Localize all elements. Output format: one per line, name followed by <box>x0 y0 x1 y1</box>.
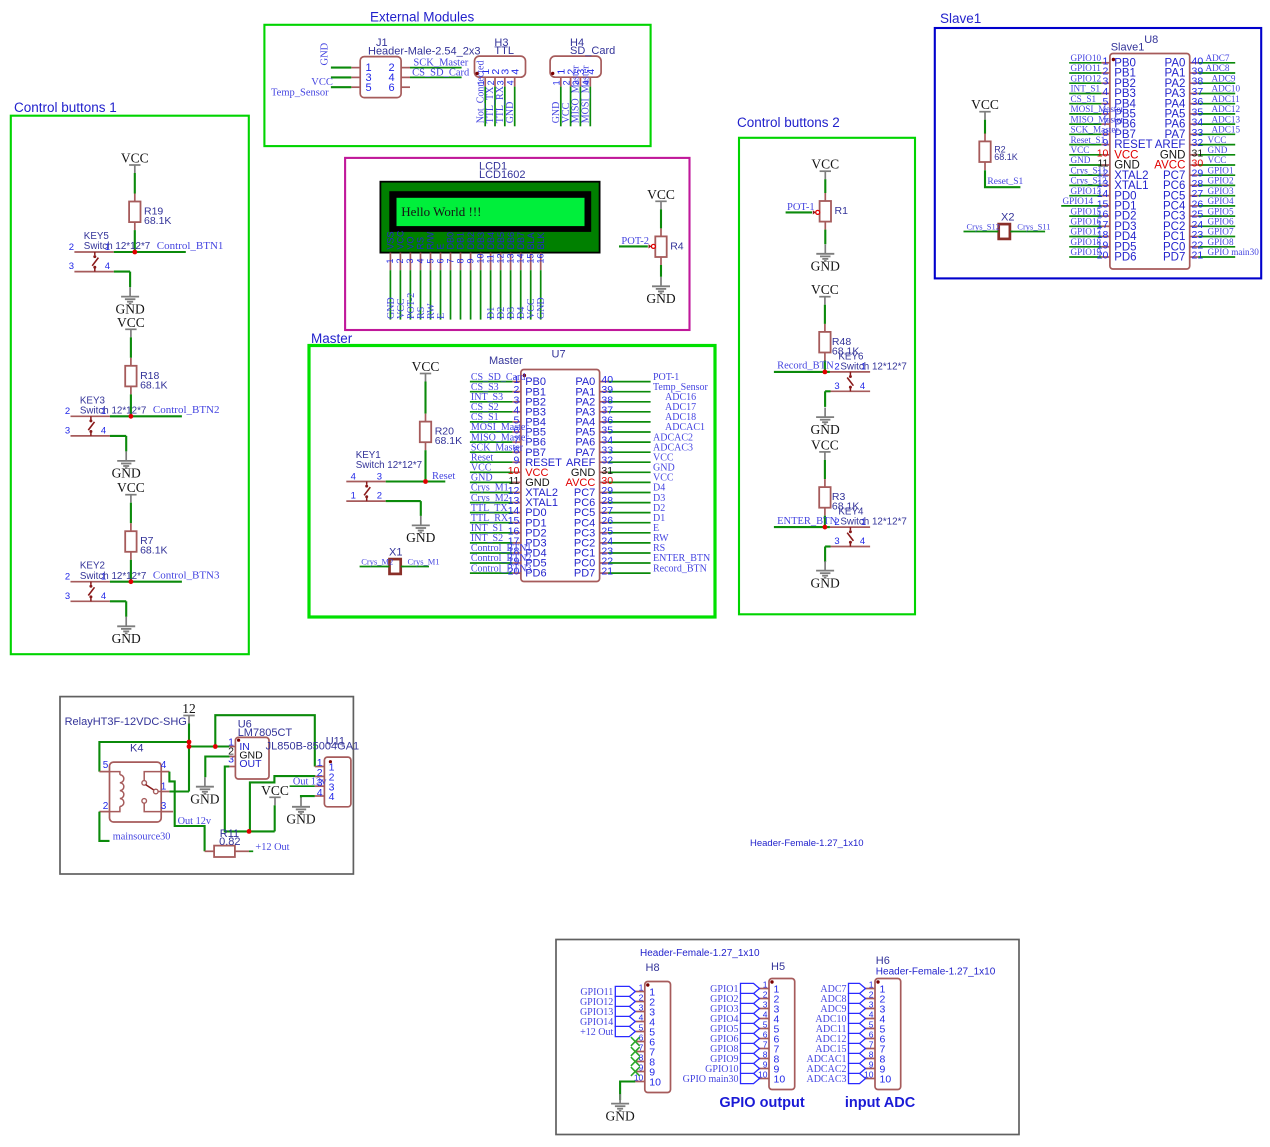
U8 pin 29 (PC7) net GPIO1 <box>1163 165 1235 181</box>
wire R7 to node <box>130 560 132 582</box>
svg-text:mainsource30: mainsource30 <box>113 832 171 843</box>
svg-text:Crys_S12: Crys_S12 <box>967 221 1001 231</box>
U7 pin 22 (PC0) net ENTER_BTN <box>574 553 710 569</box>
frame Control buttons 1 <box>11 116 249 655</box>
U7 pin 10 (VCC) net VCC <box>470 463 549 479</box>
U8 pin 31 (GND) net GND <box>1160 145 1235 161</box>
svg-text:DB1: DB1 <box>456 232 466 250</box>
svg-text:ADCAC3: ADCAC3 <box>806 1074 846 1085</box>
ground below R1 <box>811 244 840 273</box>
net flag ADC7 on H6 pin 1 <box>820 983 865 995</box>
svg-text:4: 4 <box>763 1009 768 1019</box>
U8 pin 1 (PB0) net GPIO10 <box>1069 53 1136 69</box>
svg-text:13: 13 <box>505 254 515 264</box>
resistor R7 68.1K <box>125 523 167 560</box>
svg-text:Out 12v: Out 12v <box>293 776 327 787</box>
U7 pin 11 (GND) net GND <box>470 473 550 489</box>
U8 pin 9 (RESET) net Reset_S1 <box>1069 135 1152 151</box>
U8 pin 15 (PD1) net GPIO14 <box>1061 196 1136 212</box>
wire X2 left net Crys_S12 <box>964 221 1001 231</box>
svg-text:10: 10 <box>880 1074 892 1086</box>
svg-text:5: 5 <box>103 760 109 771</box>
U7 pin 23 (PC1) net RS <box>574 543 665 559</box>
svg-text:ADC10: ADC10 <box>1212 84 1241 94</box>
wire R4 to GND <box>660 265 662 277</box>
U8 pin 20 (PD6) net GPIO19 <box>1069 247 1136 263</box>
power VCC for R48 <box>811 282 839 305</box>
power 12 supply symbol <box>182 701 196 724</box>
wire K4 pin4 to 12 rail <box>169 772 204 852</box>
svg-text:ADC13: ADC13 <box>1212 114 1241 124</box>
U8 pin 11 (GND) net GND <box>1069 155 1140 171</box>
resistor R11 0.82 (horizontal) <box>205 828 249 857</box>
U8 pin 13 (XTAL1) net Crys_S12 <box>1069 176 1148 192</box>
wire R1 to GND <box>824 230 826 245</box>
junction node ENTER_BTN <box>823 525 828 530</box>
svg-text:E: E <box>436 313 447 319</box>
svg-text:U11: U11 <box>326 736 345 748</box>
resistor R2 68.1K <box>979 133 1017 170</box>
svg-text:Header-Female-1.27_1x10: Header-Female-1.27_1x10 <box>750 838 864 849</box>
wire R18 to node <box>130 394 132 416</box>
wire K4 pin2 net mainsource30 <box>99 812 170 843</box>
junction 12 rail upper <box>187 740 192 745</box>
svg-text:GPIO6: GPIO6 <box>1208 217 1234 227</box>
svg-text:VCC: VCC <box>412 359 440 374</box>
svg-text:7: 7 <box>445 259 455 264</box>
power VCC for R18 <box>117 315 145 338</box>
U8 pin 19 (PD5) net GPIO18 <box>1069 237 1136 253</box>
connector H5 <box>758 961 795 1090</box>
wire J1 pin3 net VCC <box>311 77 351 88</box>
wire VCC to R2 <box>984 120 986 134</box>
svg-text:2: 2 <box>103 801 109 812</box>
svg-text:Switch 12*12*7: Switch 12*12*7 <box>80 406 146 417</box>
U7 pin 30 (AVCC) net VCC <box>566 473 674 489</box>
LCD pin 13 DB6 net D3 <box>505 232 517 320</box>
LCD pin 4 RS net RS <box>415 237 427 320</box>
svg-text:ENTER_BTN: ENTER_BTN <box>777 516 837 527</box>
svg-text:68.1K: 68.1K <box>140 379 167 391</box>
svg-text:2: 2 <box>377 491 382 502</box>
wire H11 pin2 branch <box>250 776 315 831</box>
svg-text:VCC: VCC <box>261 783 289 798</box>
U8 pin 39 (PA1) net ADC8 <box>1165 63 1236 79</box>
svg-text:VCC: VCC <box>647 187 675 202</box>
net flag GPIO5 on H5 pin 5 <box>710 1023 759 1035</box>
U7 pin 39 (PA1) net Temp_Sensor <box>575 382 708 398</box>
U7 pin 2 (PB1) net CS_S3 <box>470 382 546 398</box>
LCD pin 6 E net E <box>435 243 447 319</box>
resistor R4 <box>655 228 683 265</box>
wire VCC to R3 <box>824 460 826 479</box>
svg-text:SCK_Master: SCK_Master <box>1071 125 1119 135</box>
LCD pin 16 BLK net GND <box>536 232 548 319</box>
svg-text:Master: Master <box>489 355 523 367</box>
frame relay section <box>60 697 353 874</box>
svg-text:Master: Master <box>311 331 353 346</box>
U7 pin 33 (PA7) net ADCAC3 <box>575 442 693 458</box>
wire X1 right net Crys_M1 <box>401 556 440 566</box>
ground below KEY2 <box>112 617 141 646</box>
svg-text:12: 12 <box>182 701 196 716</box>
wire VCC to R19 <box>134 173 136 194</box>
svg-text:VCC: VCC <box>971 97 999 112</box>
regulator U6 LM7805CT <box>228 719 292 780</box>
svg-text:GPIO17: GPIO17 <box>1071 227 1102 237</box>
wire VCC to R20 <box>424 382 426 414</box>
svg-text:68.1K: 68.1K <box>435 435 462 447</box>
U8 pin 16 (PD2) net GPIO15 <box>1069 206 1136 222</box>
resistor R20 68.1K <box>420 414 462 451</box>
svg-text:H5: H5 <box>771 961 785 973</box>
U8 pin 25 (PC3) net GPIO5 <box>1163 206 1235 222</box>
wire J1 pin5 net Temp_Sensor <box>271 87 351 98</box>
svg-text:16: 16 <box>536 253 546 263</box>
pot wiper POT-1 into R1 <box>786 202 820 215</box>
power VCC for R1 <box>811 157 839 180</box>
U8 pin 7 (PB6) net MISO_Master <box>1069 114 1136 130</box>
LCD pin 11 DB4 net D1 <box>485 232 497 320</box>
switch KEY3 <box>65 395 146 436</box>
U7 pin 18 (PD4) net Control_BTN1 <box>470 543 547 559</box>
svg-text:Crys_S11: Crys_S11 <box>1071 165 1107 175</box>
connector H11 <box>315 757 351 807</box>
svg-text:GPIO14: GPIO14 <box>1063 196 1094 206</box>
LCD pin 7 DB0 net n/a <box>445 232 455 320</box>
power VCC 5V rail <box>261 783 289 832</box>
wire KEY5 pin4 to GND <box>129 272 131 288</box>
svg-text:4: 4 <box>510 69 522 75</box>
U7 pin 9 (RESET) net Reset <box>470 452 562 468</box>
wire H3 net TTL_TX <box>485 86 496 126</box>
wire net Control_BTN2 <box>131 404 220 416</box>
svg-text:OUT: OUT <box>239 758 262 770</box>
svg-text:GND: GND <box>536 297 547 319</box>
svg-text:6: 6 <box>763 1029 768 1039</box>
svg-text:VCC: VCC <box>811 157 839 172</box>
svg-text:Control buttons 2: Control buttons 2 <box>737 115 840 130</box>
wire net Reset <box>426 471 456 482</box>
svg-text:ADC7: ADC7 <box>1206 53 1230 63</box>
LCD pin 14 DB7 net D4 <box>515 232 527 320</box>
svg-text:Crys_S12: Crys_S12 <box>1071 176 1108 186</box>
power VCC for R3 <box>811 437 839 460</box>
LCD pin 3 VO net POT-2 <box>405 237 417 320</box>
U8 pin 28 (PC6) net GPIO2 <box>1163 176 1235 192</box>
svg-text:PD6: PD6 <box>1114 252 1136 264</box>
svg-text:4: 4 <box>101 426 106 437</box>
svg-text:GND: GND <box>1208 145 1228 155</box>
net flag GPIO14 on H8 pin 4 <box>580 1016 635 1028</box>
svg-text:5: 5 <box>639 1022 644 1032</box>
U8 pin 4 (PB3) net INT_S1 <box>1069 84 1136 100</box>
svg-text:MOSI_Master: MOSI_Master <box>1071 104 1124 114</box>
net flag GPIO10 on H5 pin 9 <box>705 1063 759 1075</box>
svg-text:9: 9 <box>763 1059 768 1069</box>
svg-text:4: 4 <box>639 1012 644 1022</box>
U7 pin 5 (PB4) net CS_S1 <box>470 412 546 428</box>
svg-text:GND: GND <box>810 575 839 590</box>
svg-text:MOSI_Master: MOSI_Master <box>581 65 592 123</box>
svg-text:4: 4 <box>860 381 865 392</box>
net flag ADC10 on H6 pin 4 <box>815 1013 865 1025</box>
svg-text:4: 4 <box>351 471 356 482</box>
U8 pin 30 (AVCC) net VCC <box>1154 155 1235 171</box>
IC U7 body <box>489 349 600 582</box>
U7 pin 20 (PD6) net Control_BTN3 <box>470 563 547 579</box>
svg-text:21: 21 <box>601 566 613 578</box>
svg-text:VCC: VCC <box>121 151 149 166</box>
svg-text:DB4: DB4 <box>486 232 496 250</box>
ground below U6 <box>190 777 219 806</box>
svg-text:+12 Out: +12 Out <box>255 842 289 853</box>
LCD text Hello World !!! <box>401 204 481 219</box>
svg-text:TTL: TTL <box>494 45 514 57</box>
svg-text:1: 1 <box>869 979 874 989</box>
svg-text:GPIO18: GPIO18 <box>1071 237 1102 247</box>
svg-text:K4: K4 <box>130 743 143 755</box>
svg-text:7: 7 <box>869 1039 874 1049</box>
U7 pin 4 (PB3) net CS_S2 <box>470 402 546 418</box>
svg-text:U7: U7 <box>552 349 566 361</box>
U8 pin 12 (XTAL2) net Crys_S11 <box>1069 165 1148 181</box>
LCD pin 15 BLA net VCC <box>525 232 537 319</box>
svg-text:2: 2 <box>639 992 644 1002</box>
svg-text:X2: X2 <box>1001 212 1014 224</box>
svg-text:GND: GND <box>811 259 840 274</box>
junction node Control_BTN3 <box>129 579 134 584</box>
U8 pin 32 (AREF) net VCC <box>1155 135 1235 151</box>
svg-text:9: 9 <box>465 258 475 263</box>
svg-text:Switch 12*12*7: Switch 12*12*7 <box>840 361 906 372</box>
svg-text:GPIO10: GPIO10 <box>1071 53 1102 63</box>
svg-text:7: 7 <box>763 1039 768 1049</box>
svg-text:0.82: 0.82 <box>219 836 240 848</box>
svg-text:BLA: BLA <box>526 232 536 249</box>
U7 pin 3 (PB2) net INT_S3 <box>470 392 546 408</box>
LCD pin 12 DB5 net D2 <box>495 232 507 320</box>
U8 pin 24 (PC2) net GPIO6 <box>1163 217 1235 233</box>
svg-text:3: 3 <box>496 80 506 85</box>
svg-text:Hello World !!!: Hello World !!! <box>401 204 481 219</box>
ground below KEY3 <box>112 451 141 480</box>
wire U6 GND pin2 <box>205 757 229 778</box>
wire H4 net VCC <box>561 87 572 127</box>
U8 pin 38 (PA2) net ADC9 <box>1165 73 1236 89</box>
relay K4 body <box>99 743 173 823</box>
junction VCC net <box>247 829 252 834</box>
ground below KEY1 <box>406 516 435 545</box>
svg-text:Header-Female-1.27_1x10: Header-Female-1.27_1x10 <box>640 948 760 959</box>
svg-text:GND: GND <box>112 631 141 646</box>
net flag ADC8 on H6 pin 2 <box>820 993 865 1005</box>
wire 12 to U6 IN <box>189 745 229 747</box>
resistor R1 <box>820 193 848 230</box>
caption GPIO output <box>719 1095 805 1111</box>
U7 pin 19 (PD5) net Control_BTN2 <box>470 553 547 569</box>
svg-text:1: 1 <box>552 80 562 85</box>
U8 pin 17 (PD3) net GPIO16 <box>1069 217 1136 233</box>
svg-text:GND: GND <box>112 466 141 481</box>
LCD pin 5 R/W net RW <box>425 231 437 319</box>
svg-text:Reset: Reset <box>432 471 455 482</box>
svg-text:Record_BTN: Record_BTN <box>653 563 707 574</box>
svg-text:3: 3 <box>869 999 874 1009</box>
svg-text:+12 Out: +12 Out <box>580 1027 613 1038</box>
svg-text:Switch 12*12*7: Switch 12*12*7 <box>840 517 906 528</box>
svg-text:68.1K: 68.1K <box>140 545 167 557</box>
U8 pin 22 (PC0) net GPIO8 <box>1163 237 1235 253</box>
svg-text:H6: H6 <box>876 955 890 967</box>
svg-text:GND: GND <box>320 42 331 65</box>
svg-text:5: 5 <box>366 82 372 94</box>
frame Slave1 <box>935 28 1261 278</box>
net flag ADC9 on H6 pin 3 <box>820 1003 865 1015</box>
net flag ADC15 on H6 pin 7 <box>815 1043 865 1055</box>
svg-text:5: 5 <box>869 1019 874 1029</box>
power VCC for R19 <box>121 151 149 174</box>
frame LCD1 <box>345 158 689 330</box>
U7 pin 37 (PA3) net ADC17 <box>575 402 696 418</box>
svg-text:R4: R4 <box>670 240 684 252</box>
svg-text:VCC: VCC <box>396 230 406 250</box>
LCD pin 8 DB1 net n/a <box>455 232 465 320</box>
svg-text:INT_S1: INT_S1 <box>1071 84 1101 94</box>
svg-text:2: 2 <box>869 989 874 999</box>
net flag GPIO11 on H8 pin 1 <box>580 986 635 998</box>
svg-text:2: 2 <box>65 406 70 417</box>
svg-text:Header-Male-2.54_2x3: Header-Male-2.54_2x3 <box>368 46 481 58</box>
wire R48 to node <box>824 361 826 372</box>
pot wiper POT-2 into R4 <box>619 236 655 249</box>
svg-text:GPIO4: GPIO4 <box>1208 196 1234 206</box>
net flag GPIO13 on H8 pin 3 <box>580 1006 635 1018</box>
svg-text:2: 2 <box>65 572 70 583</box>
wire J1 pin4 net CS_SD_Card <box>410 67 470 78</box>
LCD pin 10 DB3 net n/a <box>475 232 485 320</box>
svg-text:3: 3 <box>834 381 839 392</box>
wire H3 net TTL_RX <box>495 85 506 126</box>
svg-text:3: 3 <box>69 261 74 272</box>
svg-text:1: 1 <box>763 979 768 989</box>
U8 pin 27 (PC5) net GPIO3 <box>1163 186 1235 202</box>
svg-text:VCC: VCC <box>117 480 145 495</box>
svg-text:Control_BTN2: Control_BTN2 <box>153 404 220 416</box>
connector H3 TTL <box>475 37 526 87</box>
power VCC for R2 <box>971 97 999 120</box>
wire X2 right net Crys_S11 <box>1010 221 1050 231</box>
svg-text:8: 8 <box>869 1049 874 1059</box>
switch KEY4 <box>825 507 907 547</box>
net flag GPIO12 on H8 pin 2 <box>580 996 635 1008</box>
switch KEY1 <box>346 450 425 502</box>
svg-text:SD_Card: SD_Card <box>570 45 615 57</box>
svg-text:PD7: PD7 <box>1163 252 1185 264</box>
svg-text:GPIO8: GPIO8 <box>1208 237 1234 247</box>
svg-text:11: 11 <box>485 254 495 263</box>
wire H11 pin3 net Out 12v <box>290 776 328 787</box>
svg-text:4: 4 <box>105 261 110 272</box>
svg-text:1: 1 <box>385 258 395 263</box>
junction U6 IN branch <box>213 744 218 749</box>
svg-text:Reset_S1: Reset_S1 <box>1071 135 1106 145</box>
U7 pin 13 (XTAL1) net Crys_M2 <box>470 493 558 509</box>
svg-text:GPIO13: GPIO13 <box>1071 186 1102 196</box>
U8 pin 37 (PA3) net ADC10 <box>1165 84 1241 100</box>
svg-text:VSS: VSS <box>386 231 396 249</box>
svg-text:Control_BTN1: Control_BTN1 <box>157 240 224 252</box>
U8 pin 23 (PC1) net GPIO7 <box>1163 227 1235 243</box>
svg-text:E: E <box>436 243 446 249</box>
svg-text:Control_BTN3: Control_BTN3 <box>471 563 532 574</box>
svg-text:8: 8 <box>763 1049 768 1059</box>
U8 pin 34 (PA6) net ADC13 <box>1165 114 1241 130</box>
wire KEY4 pin3 to GND <box>824 547 826 563</box>
wire KEY1 pin2 to GND <box>420 501 422 516</box>
wire KEY3 pin4 to GND <box>125 436 127 452</box>
title Control buttons 1 <box>14 100 117 115</box>
svg-text:6: 6 <box>869 1029 874 1039</box>
svg-text:3: 3 <box>377 471 382 482</box>
wire H4 net MISO_Master <box>571 65 582 126</box>
svg-text:GPIO15: GPIO15 <box>1071 206 1102 216</box>
svg-text:RelayHT3F-12VDC-SHG: RelayHT3F-12VDC-SHG <box>65 716 187 728</box>
U7 pin 8 (PB7) net SCK_Master <box>470 442 546 458</box>
U7 pin 24 (PC2) net RW <box>574 533 669 549</box>
wire H4 net GND <box>551 87 562 127</box>
title Master <box>311 331 353 346</box>
U7 pin 16 (PD2) net INT_S1 <box>470 523 547 539</box>
ground below KEY6 <box>810 408 839 437</box>
wire R20 to node Reset <box>424 450 426 481</box>
svg-text:VCC: VCC <box>1208 135 1227 145</box>
wire X1 left net Crys_M2 <box>360 556 394 566</box>
power VCC for R4 <box>647 187 675 210</box>
svg-text:4: 4 <box>860 536 865 547</box>
net flag GPIO2 on H5 pin 2 <box>710 993 759 1005</box>
svg-text:10: 10 <box>649 1077 661 1089</box>
svg-text:GPIO2: GPIO2 <box>1208 176 1234 186</box>
net label Out 12v on K4 pin4 wire <box>178 816 212 827</box>
svg-text:68.1K: 68.1K <box>994 152 1018 162</box>
wire KEY2 pin4 to GND <box>125 601 127 617</box>
LCD display module body <box>380 182 599 253</box>
U8 pin 3 (PB2) net GPIO12 <box>1069 73 1136 89</box>
wire R19 to node <box>134 230 136 252</box>
svg-text:External Modules: External Modules <box>370 10 475 25</box>
svg-text:3: 3 <box>228 753 234 765</box>
U7 pin 17 (PD3) net INT_S2 <box>470 533 547 549</box>
svg-text:GND: GND <box>286 812 315 827</box>
U8 pin 10 (VCC) net VCC <box>1069 145 1138 161</box>
svg-text:ADC9: ADC9 <box>1212 73 1236 83</box>
svg-text:GPIO19: GPIO19 <box>1071 247 1102 257</box>
svg-text:1: 1 <box>639 982 644 992</box>
net flag ADC11 on H6 pin 5 <box>816 1023 866 1035</box>
connector H6 Header-Female-1.27_1x10 <box>864 955 996 1090</box>
switch KEY2 <box>65 561 146 602</box>
wire R2 to net Reset_S1 <box>985 170 1024 187</box>
wire J1 pin1 net GND <box>320 42 352 67</box>
power VCC for R7 <box>117 480 145 503</box>
svg-text:VCC: VCC <box>1071 145 1090 155</box>
U8 pin 2 (PB1) net GPIO11 <box>1069 63 1136 79</box>
svg-text:GND: GND <box>505 102 516 124</box>
junction node Control_BTN2 <box>129 414 134 419</box>
junction node Reset <box>423 479 428 484</box>
svg-text:DB2: DB2 <box>466 232 476 250</box>
